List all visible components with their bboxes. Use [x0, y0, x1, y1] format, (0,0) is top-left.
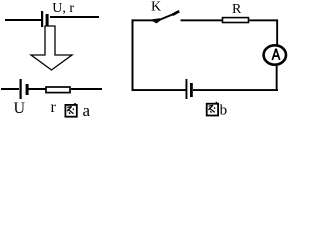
- battery E3 (loop b), short thick plate: [190, 83, 193, 97]
- ammeter letter A: [272, 49, 279, 60]
- caption glyph "tu" (figure) of "tu b": [207, 102, 218, 116]
- wire: loop b bottom, battery to right corner: [193, 89, 278, 91]
- wire: loop b top, switch to resistor R: [181, 19, 223, 21]
- switch K blade tip (thicker hooked end): [173, 11, 180, 15]
- battery E2 (bottom), short thick plate: [26, 84, 29, 95]
- resistor R (box): [223, 18, 249, 23]
- svg-text:a: a: [83, 101, 91, 120]
- battery E2 (bottom), long plate: [20, 79, 22, 99]
- wire: figure a bottom, right of resistor: [71, 88, 102, 90]
- battery E1 (top), short thick plate: [46, 14, 49, 26]
- svg-text:b: b: [220, 103, 228, 119]
- wire: loop b right side, corner to ammeter: [276, 19, 278, 45]
- wire: figure a bottom, battery to resistor: [29, 88, 46, 90]
- wire: loop b top, left corner to switch: [132, 19, 154, 21]
- ammeter A (circle): [264, 45, 286, 64]
- switch K blade: [156, 14, 175, 22]
- wire: loop b top, resistor to right corner: [249, 19, 277, 21]
- battery E1 (top), long plate: [41, 11, 43, 27]
- wire: figure a top, left of battery: [5, 19, 41, 21]
- svg-text:K: K: [151, 0, 161, 15]
- block arrow (hollow, pointing down): [31, 26, 72, 70]
- battery E3 (loop b), long plate: [186, 79, 188, 99]
- wire: loop b bottom, left corner to battery: [132, 89, 186, 91]
- switch K pivot contact (filled blob): [152, 18, 160, 23]
- wire: loop b right side, ammeter to bottom corner: [276, 66, 278, 92]
- svg-text:R: R: [232, 2, 242, 17]
- wire: loop b left side: [132, 19, 134, 91]
- resistor r (box): [46, 87, 70, 93]
- wire: figure a bottom, left of battery: [1, 88, 19, 90]
- caption glyph "tu" (figure) of "tu a": [65, 103, 76, 117]
- svg-text:r: r: [51, 99, 57, 116]
- svg-text:U: U: [14, 100, 26, 117]
- wire: figure a top, right of battery: [50, 16, 99, 18]
- svg-text:U, r: U, r: [52, 1, 74, 16]
